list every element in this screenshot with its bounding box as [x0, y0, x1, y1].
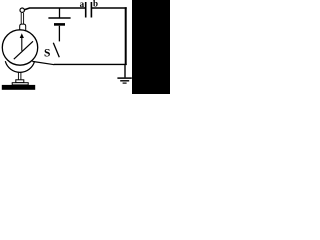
wire top horizontal from capacitor plate b to right corner — [92, 7, 127, 9]
electroscope arrow head — [20, 33, 24, 38]
electroscope case circle — [2, 30, 37, 65]
background — [0, 0, 170, 94]
electroscope dish under case — [5, 61, 34, 72]
ground stub — [124, 64, 126, 77]
electroscope rod arrow shaft inside — [21, 37, 23, 51]
ground bar 3 — [123, 82, 127, 84]
battery long plate — [48, 17, 70, 19]
battery top lead — [59, 8, 61, 18]
capacitor plate b (right) — [91, 2, 93, 18]
terminal ball of electroscope — [20, 8, 24, 12]
stand stem (double line) — [17, 72, 19, 80]
stand pedestal lower step — [12, 83, 28, 85]
table bar — [2, 85, 35, 90]
ground bar 2 — [120, 80, 129, 82]
wire top horizontal from electroscope terminal to capacitor plate a — [24, 8, 85, 10]
switch top lead from battery — [58, 26, 60, 42]
capacitor plate a (left) — [85, 2, 87, 18]
electroscope insulating collar — [20, 24, 26, 31]
wire right vertical down to ground node — [125, 7, 127, 65]
battery short thick plate — [54, 23, 65, 26]
svg-text:b: b — [93, 0, 98, 9]
electroscope rod (double line) — [20, 13, 22, 24]
black margin strip (transparent area of original) — [132, 0, 170, 94]
wire from electroscope to switch junction — [32, 61, 54, 64]
svg-text:a: a — [80, 0, 85, 9]
ground bar 1 — [117, 77, 131, 79]
electroscope needle — [14, 41, 33, 59]
wire bottom horizontal from switch junction to right vertical — [54, 63, 127, 65]
switch blade (open) — [53, 43, 59, 58]
svg-text:S: S — [44, 47, 50, 59]
stand pedestal upper step — [16, 80, 24, 83]
